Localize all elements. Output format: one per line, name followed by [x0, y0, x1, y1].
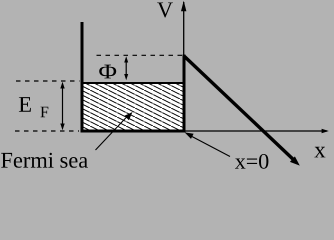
label x=0 — [235, 154, 268, 169]
label E_F — [19, 97, 31, 112]
x axis arrowhead — [322, 129, 329, 134]
x=0 pointer arrow — [185, 132, 230, 156]
sloping potential arrowhead — [290, 156, 300, 165]
label Fermi sea — [1, 153, 88, 168]
vacuum level dashed line — [97, 54, 184, 56]
x axis line — [184, 130, 327, 132]
V axis arrowhead — [181, 1, 186, 11]
label Phi (work function) — [99, 65, 116, 79]
metal surface wall (left edge of Fermi sea) — [81, 22, 84, 133]
potential step at x=0 (right edge of Fermi sea) — [183, 55, 186, 133]
Fermi sea hatched region — [84, 84, 183, 130]
label V — [157, 3, 173, 18]
label x (axis) — [314, 147, 325, 158]
V axis line — [183, 2, 185, 131]
Fermi sea pointer arrow — [96, 112, 133, 150]
E_F double-headed arrow — [60, 82, 64, 130]
work function Phi double-headed arrow — [124, 56, 128, 80]
Fermi sea top edge (Fermi level inside metal) — [81, 82, 186, 84]
sloping potential line (applied field) — [184, 56, 294, 160]
band bottom dashed line (left of wall) — [15, 130, 79, 132]
Fermi sea bottom edge (band bottom) — [81, 130, 186, 133]
Fermi level dashed line (left of wall) — [16, 80, 80, 82]
